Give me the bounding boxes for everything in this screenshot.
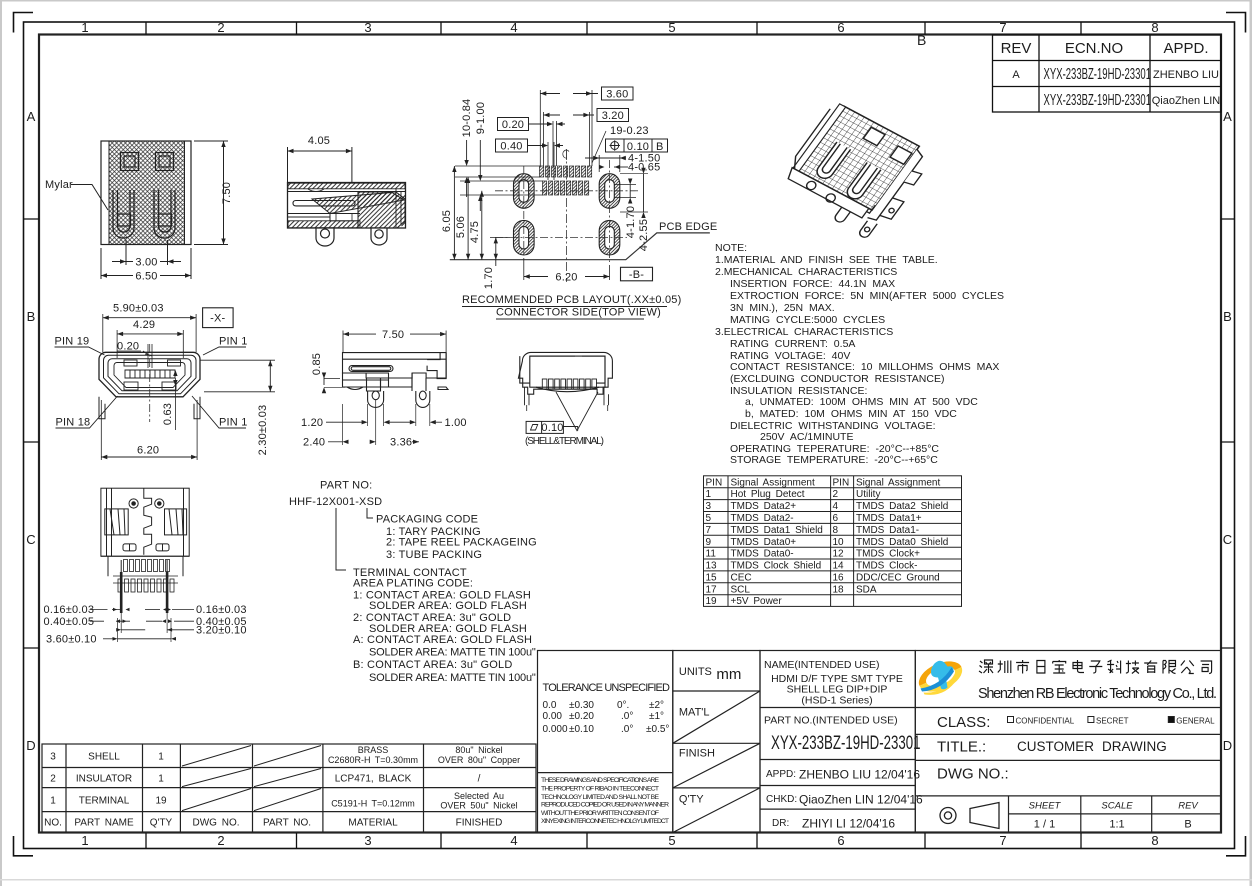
svg-text:7: 7 <box>999 833 1006 848</box>
middle block <box>367 378 381 391</box>
dim box 0.40 <box>496 139 564 180</box>
dimension 3.00 (view1 below) <box>112 240 181 265</box>
bottom mounting feet <box>99 397 200 419</box>
svg-text:TMDS Data2-: TMDS Data2- <box>731 513 794 524</box>
svg-text:TMDS Clock Shield: TMDS Clock Shield <box>731 561 822 572</box>
iso front face <box>782 104 913 226</box>
svg-text:2: 2 <box>833 489 839 500</box>
svg-text:Signal Assignment: Signal Assignment <box>856 477 940 488</box>
svg-text:BRASS: BRASS <box>358 745 389 755</box>
dim 0.63 <box>162 370 178 430</box>
svg-text:PIN 1: PIN 1 <box>219 417 248 429</box>
svg-text:2: 2 <box>217 833 224 848</box>
centerline vertical <box>565 150 567 282</box>
svg-text:0.20: 0.20 <box>502 119 524 131</box>
svg-text:INSERTION FORCE: 44.1N MA: INSERTION FORCE: 44.1N MAX <box>730 278 895 290</box>
svg-text:-B-: -B- <box>629 269 644 281</box>
dim 9-1.00 rotated <box>475 102 487 211</box>
dim 4-1.70 rotated right <box>614 179 637 239</box>
svg-text:12: 12 <box>833 549 845 560</box>
DIP legs with holes <box>316 228 387 246</box>
pad oval top-left <box>514 174 620 255</box>
class row <box>937 714 1215 731</box>
SMT pin row lower <box>118 579 174 592</box>
upper square features <box>121 153 174 171</box>
svg-text:LCP471, BLACK: LCP471, BLACK <box>335 774 412 785</box>
iso U latch left <box>812 118 915 209</box>
电 <box>1073 660 1084 673</box>
svg-text:4-2.55: 4-2.55 <box>638 219 650 251</box>
司 <box>1201 661 1212 674</box>
svg-text:13: 13 <box>706 561 718 572</box>
svg-text:2.30±0.03: 2.30±0.03 <box>257 405 269 456</box>
sheet/scale/rev <box>1029 801 1200 831</box>
pad oval bottom-left <box>514 220 535 255</box>
svg-text:3.ELECTRICAL CHARACTERISTICS: 3.ELECTRICAL CHARACTERISTICS <box>715 326 893 338</box>
iso right side flange and legs <box>832 137 935 243</box>
right vertical edge details <box>396 189 406 228</box>
技 <box>1126 661 1139 674</box>
svg-text:CONTACT RESISTANCE: 10 MILL: CONTACT RESISTANCE: 10 MILLOHMS OHMS MAX <box>730 361 999 373</box>
view3 captions <box>462 294 681 319</box>
label PIN 1 bottom <box>192 396 248 429</box>
svg-text:1 / 1: 1 / 1 <box>1034 819 1055 831</box>
svg-text:TERMINAL: TERMINAL <box>79 796 130 807</box>
svg-text:APPD.: APPD. <box>1163 40 1208 57</box>
svg-text:250V AC/1MINUTE: 250V AC/1MINUTE <box>760 431 853 443</box>
svg-text:FINISH: FINISH <box>679 748 715 760</box>
svg-text:1:1: 1:1 <box>1109 819 1124 831</box>
hatched bottom strip <box>288 221 360 228</box>
svg-text:B: CONTACT AREA: 3u" GOLD: B: CONTACT AREA: 3u" GOLD <box>353 659 512 671</box>
svg-text:7.50: 7.50 <box>382 329 404 341</box>
svg-text:19: 19 <box>706 596 718 607</box>
svg-text:TMDS Data1 Shield: TMDS Data1 Shield <box>731 525 823 536</box>
inner horizontal lines <box>288 192 405 218</box>
svg-text:B: B <box>656 141 664 153</box>
svg-text:/: / <box>478 774 481 785</box>
small windows <box>123 544 136 551</box>
svg-text:15: 15 <box>706 572 718 583</box>
svg-text:MATERIAL: MATERIAL <box>348 818 398 829</box>
svg-text:NO.: NO. <box>44 818 62 829</box>
svg-text:18: 18 <box>833 584 845 595</box>
svg-text:0.16±0.03: 0.16±0.03 <box>44 604 95 616</box>
lower body section <box>101 556 189 576</box>
target circles <box>129 499 138 508</box>
svg-text:6: 6 <box>833 513 839 524</box>
svg-text:±1°: ±1° <box>649 711 664 722</box>
svg-text:11: 11 <box>706 549 717 560</box>
svg-text:RATING CURRENT: 0.5A: RATING CURRENT: 0.5A <box>730 338 855 350</box>
dim 5.90±0.03 <box>103 303 196 353</box>
svg-text:TMDS Clock-: TMDS Clock- <box>856 561 917 572</box>
svg-text:3.60±0.10: 3.60±0.10 <box>46 633 97 645</box>
dimension 4.05 (view2 top) <box>288 147 352 182</box>
svg-text:Selected Au: Selected Au <box>454 791 504 801</box>
svg-text:6.50: 6.50 <box>135 271 157 283</box>
revision table top right <box>993 35 1222 112</box>
PCB edge line <box>450 233 710 260</box>
svg-text:0.00: 0.00 <box>543 711 563 722</box>
dimension 7.50 (view1 right) <box>194 141 228 245</box>
svg-text:CEC: CEC <box>731 572 752 583</box>
orange/yellow elliptical ring <box>914 655 967 697</box>
DIP legs <box>368 391 384 407</box>
flatness feature box 0.10 <box>526 421 564 433</box>
宝 <box>1053 660 1066 673</box>
svg-text:±0.30: ±0.30 <box>569 700 594 711</box>
svg-text:SDA: SDA <box>856 584 877 595</box>
svg-text:3: TUBE PACKING: 3: TUBE PACKING <box>386 549 482 561</box>
dim 0.85 view6 <box>311 353 345 393</box>
svg-text:19-0.23: 19-0.23 <box>610 125 649 137</box>
svg-text:Mylar: Mylar <box>45 179 73 191</box>
svg-text:17: 17 <box>706 584 718 595</box>
svg-text:TMDS Data2+: TMDS Data2+ <box>731 501 797 512</box>
svg-text:4.29: 4.29 <box>133 319 155 331</box>
svg-text:B: B <box>917 32 926 48</box>
mylar hatched body <box>101 141 191 245</box>
lower windows <box>124 382 138 390</box>
svg-text:PCB EDGE: PCB EDGE <box>659 221 717 233</box>
svg-text:3: 3 <box>364 20 371 35</box>
svg-text:CONNECTOR SIDE(TOP VIEW): CONNECTOR SIDE(TOP VIEW) <box>496 307 661 319</box>
svg-text:PIN 1: PIN 1 <box>219 336 248 348</box>
dimple <box>308 189 324 192</box>
svg-text:19: 19 <box>155 796 167 807</box>
svg-text:TMDS Data0+: TMDS Data0+ <box>731 537 797 548</box>
svg-text:1: 1 <box>158 774 164 785</box>
svg-text:6: 6 <box>837 20 844 35</box>
svg-text:ECN.NO: ECN.NO <box>1065 40 1123 57</box>
iso top square features <box>863 127 885 145</box>
label PIN 18 <box>56 396 118 429</box>
svg-text:THE PROPERTY OF RIBAO IN TEECO: THE PROPERTY OF RIBAO IN TEECONNECT <box>541 785 659 792</box>
svg-text:FINISHED: FINISHED <box>456 818 503 829</box>
svg-text:STORAGE TEMPERATURE: -20°C--: STORAGE TEMPERATURE: -20°C--+65°C <box>730 454 938 466</box>
svg-text:3: 3 <box>50 752 56 763</box>
right hook <box>427 353 446 379</box>
svg-text:REPRODUCED COPIED OR USED IN A: REPRODUCED COPIED OR USED IN ANY MANNER <box>541 802 669 809</box>
left SMT pad <box>343 373 389 387</box>
svg-text:APPD:: APPD: <box>766 769 796 780</box>
svg-text:3.60: 3.60 <box>606 89 628 101</box>
dim 10-0.84 rotated <box>461 99 473 197</box>
hatched right section block <box>358 192 405 228</box>
svg-text:80u" Nickel: 80u" Nickel <box>455 745 502 755</box>
dim 1.20 / 1.00 <box>301 404 467 429</box>
blue hammer glyph <box>931 661 954 690</box>
svg-text:UNITS: UNITS <box>679 666 712 678</box>
dim 1.70 below <box>483 237 510 289</box>
svg-text:4: 4 <box>510 833 517 848</box>
svg-text:PART NO.: PART NO. <box>263 818 311 829</box>
svg-text:5.90±0.03: 5.90±0.03 <box>113 303 164 315</box>
pad centerlines <box>495 160 640 262</box>
svg-text:C: C <box>26 532 35 547</box>
svg-text:DWG NO.:: DWG NO.: <box>937 766 1009 783</box>
svg-text:3: 3 <box>364 833 371 848</box>
svg-text:OVER 50u" Nickel: OVER 50u" Nickel <box>440 801 517 811</box>
svg-text:±0.5°: ±0.5° <box>646 724 669 735</box>
svg-text:CUSTOMER: CUSTOMER <box>1017 739 1094 754</box>
svg-text:4.75: 4.75 <box>469 221 481 243</box>
SMT pin pads row 1 (19-0.23) <box>540 166 592 177</box>
iso body top face with mesh grid <box>793 99 919 216</box>
科 <box>1107 660 1121 674</box>
svg-text:6.05: 6.05 <box>441 210 453 232</box>
svg-text:16: 16 <box>833 572 845 583</box>
svg-text:6.20: 6.20 <box>137 445 159 457</box>
svg-text:±2°: ±2° <box>649 700 664 711</box>
svg-text:A: A <box>1223 109 1232 124</box>
svg-text:3.00: 3.00 <box>135 257 157 269</box>
svg-text:OVER 80u" Copper: OVER 80u" Copper <box>438 755 520 765</box>
disclaimer small text <box>541 777 669 825</box>
svg-text:0.10: 0.10 <box>541 422 563 434</box>
svg-text:±0.10: ±0.10 <box>569 724 594 735</box>
contact row <box>125 370 175 378</box>
svg-text:MATING CYCLE:5000 CYCLES: MATING CYCLE:5000 CYCLES <box>730 314 885 326</box>
svg-text:10: 10 <box>833 537 845 548</box>
svg-text:b, MATED: 10M OHMS MIN: b, MATED: 10M OHMS MIN AT 150 VDC <box>745 408 957 420</box>
svg-text:±0.20: ±0.20 <box>569 711 594 722</box>
pad oval bottom-right <box>599 220 620 255</box>
small terminal squares <box>542 379 596 389</box>
SMT pin row upper <box>124 560 170 572</box>
svg-text:8: 8 <box>833 525 839 536</box>
left extension lines for pin rows <box>455 166 543 195</box>
terminal bent band <box>312 193 404 214</box>
svg-text:1: 1 <box>706 489 712 500</box>
svg-text:-X-: -X- <box>210 313 225 325</box>
svg-text:SCL: SCL <box>731 584 751 595</box>
svg-text:Utility: Utility <box>856 489 880 500</box>
svg-text:REV: REV <box>1178 801 1199 812</box>
svg-text:(SHELL&TERMINAL): (SHELL&TERMINAL) <box>525 436 604 447</box>
svg-text:6.20: 6.20 <box>555 272 577 284</box>
svg-text:THESE DRAWINGS AND SPECIFICATI: THESE DRAWINGS AND SPECIFICATIONS ARE <box>541 777 659 784</box>
diagonal slashes in empty cells <box>182 746 321 811</box>
svg-text:2: 2 <box>50 774 56 785</box>
svg-text:8: 8 <box>1151 833 1158 848</box>
svg-text:Shenzhen RB Electronic Technol: Shenzhen RB Electronic Technology Co., L… <box>978 686 1217 702</box>
svg-text:10-0.84: 10-0.84 <box>461 99 473 138</box>
svg-text:TMDS Data2 Shield: TMDS Data2 Shield <box>856 501 948 512</box>
svg-text:9-1.00: 9-1.00 <box>475 102 487 134</box>
svg-text:D: D <box>1223 738 1232 753</box>
svg-text:0°.: 0°. <box>617 700 629 711</box>
dim 6.20 view5 <box>101 400 197 460</box>
svg-text:XYX-233BZ-19HD-23301: XYX-233BZ-19HD-23301 <box>1044 65 1152 83</box>
svg-text:1: 1 <box>158 752 164 763</box>
子 <box>1089 661 1102 673</box>
svg-text:1.70: 1.70 <box>483 267 495 289</box>
svg-text:NAME(INTENDED USE): NAME(INTENDED USE) <box>764 659 880 671</box>
upper small windows <box>124 360 137 366</box>
svg-text:D: D <box>26 738 35 753</box>
svg-text:A: A <box>27 109 36 124</box>
dark blue swoosh <box>921 668 955 692</box>
svg-text:DR:: DR: <box>772 818 789 829</box>
svg-text:C: C <box>1223 532 1232 547</box>
svg-text:8: 8 <box>1151 20 1158 35</box>
svg-text:3N MIN.), 25N MAX.: 3N MIN.), 25N MAX. <box>730 302 835 314</box>
dim 2.40 / 3.36 <box>303 400 419 449</box>
svg-text:A: A <box>1012 69 1020 81</box>
有 <box>1144 661 1157 674</box>
hatched top strip <box>288 183 405 189</box>
dim box 0.20 <box>498 118 566 167</box>
svg-text:3: 3 <box>706 501 712 512</box>
svg-text:INSULATOR: INSULATOR <box>76 774 132 785</box>
centerline symbol G <box>563 149 569 160</box>
svg-text:1.00: 1.00 <box>445 417 467 429</box>
dim 2.30±0.03 <box>200 360 275 455</box>
svg-text:QiaoZhen LIN 12/04'16: QiaoZhen LIN 12/04'16 <box>799 793 923 807</box>
svg-text:.0°: .0° <box>621 724 633 735</box>
svg-text:0.40: 0.40 <box>500 141 522 153</box>
svg-text:PIN: PIN <box>706 477 723 488</box>
branch lines <box>336 508 373 570</box>
市 <box>1016 660 1029 674</box>
svg-text:Q'TY: Q'TY <box>150 818 173 829</box>
svg-text:B: B <box>27 309 36 324</box>
svg-text:PACKAGING CODE: PACKAGING CODE <box>376 513 478 525</box>
svg-text:PIN: PIN <box>833 477 850 488</box>
svg-text:0.000: 0.000 <box>543 724 568 735</box>
label 4-1.50 <box>585 153 660 173</box>
svg-text:DWG NO.: DWG NO. <box>193 818 240 829</box>
svg-text:B: B <box>1223 309 1232 324</box>
svg-text:B: B <box>1184 819 1191 831</box>
SMT pin pads row 2 <box>543 181 589 195</box>
slot oval <box>349 366 393 372</box>
dim box 3.60 <box>540 87 633 166</box>
label 4-0.65 <box>600 162 661 174</box>
view8 dimension texts <box>44 604 247 645</box>
svg-text:SOLDER AREA: MATTE TIN 100: SOLDER AREA: MATTE TIN 100u" <box>369 647 536 659</box>
body outline <box>101 488 189 556</box>
svg-text:TMDS Data1-: TMDS Data1- <box>856 525 919 536</box>
svg-text:1: 1 <box>50 796 56 807</box>
DIP pins long <box>121 572 167 613</box>
svg-text:TMDS Clock+: TMDS Clock+ <box>856 549 920 560</box>
svg-text:DDC/CEC Ground: DDC/CEC Ground <box>856 572 940 583</box>
svg-text:7: 7 <box>706 525 712 536</box>
限 <box>1163 661 1176 674</box>
dim 6.05 <box>441 166 457 260</box>
svg-text:QiaoZhen LIN: QiaoZhen LIN <box>1152 95 1221 107</box>
svg-text:4: 4 <box>833 501 839 512</box>
svg-text:SCALE: SCALE <box>1101 801 1133 812</box>
company logo <box>914 655 967 697</box>
svg-text:C2680R-H T=0.30mm: C2680R-H T=0.30mm <box>328 755 418 765</box>
svg-text:ZHENBO LIU: ZHENBO LIU <box>1153 69 1219 81</box>
svg-text:SOLDER AREA: GOLD FLASH: SOLDER AREA: GOLD FLASH <box>369 600 527 612</box>
dim 6.20 pcb <box>524 258 610 284</box>
svg-text:AREA PLATING CODE:: AREA PLATING CODE: <box>353 577 473 589</box>
svg-text:5: 5 <box>668 20 675 35</box>
svg-text:EXTROCTION FORCE: 5N MIN(AF: EXTROCTION FORCE: 5N MIN(AFTER 5000 CYCL… <box>730 290 1004 302</box>
svg-text:4.05: 4.05 <box>308 135 330 147</box>
svg-text:6: 6 <box>837 833 844 848</box>
GDT frame 0.10 B <box>606 139 668 153</box>
pad oval top-right <box>599 174 620 209</box>
svg-text:NOTE:: NOTE: <box>715 242 747 254</box>
svg-text:3.20: 3.20 <box>602 110 624 122</box>
svg-text:PIN 18: PIN 18 <box>56 417 91 429</box>
svg-text:0.40±0.05: 0.40±0.05 <box>44 616 95 628</box>
svg-text:.0°: .0° <box>621 711 633 722</box>
side legs <box>525 387 609 405</box>
svg-text:1: 1 <box>81 833 88 848</box>
svg-text:DRAWING: DRAWING <box>1102 739 1167 754</box>
svg-text:5.06: 5.06 <box>455 216 467 238</box>
svg-text:2.MECHANICAL CHARACTERISTICS: 2.MECHANICAL CHARACTERISTICS <box>715 266 897 278</box>
svg-text:TMDS Data0-: TMDS Data0- <box>731 549 794 560</box>
svg-text:WITHOUT THE PRIOR WRITTEN CON: WITHOUT THE PRIOR WRITTEN CONSENT OF <box>541 810 659 817</box>
svg-text:Q'TY: Q'TY <box>679 794 704 806</box>
svg-text:SECRET: SECRET <box>1096 717 1129 726</box>
svg-text:5: 5 <box>706 513 712 524</box>
company name chinese (drawn strokes) <box>979 660 1212 674</box>
svg-text:mm: mm <box>716 666 741 683</box>
圳 <box>998 661 1011 674</box>
dim 0.20 inside <box>117 341 152 369</box>
yellow under-swoosh <box>924 673 958 695</box>
svg-text:GENERAL: GENERAL <box>1176 717 1215 726</box>
svg-text:2: 2 <box>217 20 224 35</box>
svg-text:PIN 19: PIN 19 <box>55 336 90 348</box>
contact tongue <box>293 201 355 206</box>
dim box 3.20 <box>544 109 629 167</box>
svg-text:9: 9 <box>706 537 712 548</box>
svg-text:1: 1 <box>81 20 88 35</box>
U shaped latch features <box>113 190 175 238</box>
svg-text:0.16±0.03: 0.16±0.03 <box>196 604 247 616</box>
svg-text:Signal Assignment: Signal Assignment <box>731 477 815 488</box>
日 <box>1037 661 1045 674</box>
svg-text:ZHENBO LIU 12/04'16: ZHENBO LIU 12/04'16 <box>799 768 920 782</box>
label Mylar with leader <box>45 179 108 210</box>
inner tongue cavity <box>114 363 185 388</box>
svg-text:MAT'L: MAT'L <box>679 707 710 719</box>
svg-text:4-1.70: 4-1.70 <box>625 206 637 238</box>
svg-text:A: CONTACT AREA: GOLD FLAS: A: CONTACT AREA: GOLD FLASH <box>353 634 532 646</box>
svg-text:XYX-233BZ-19HD-23301: XYX-233BZ-19HD-23301 <box>1044 91 1152 109</box>
datum box -X- <box>203 308 234 328</box>
svg-text:14: 14 <box>833 561 845 572</box>
svg-text:3.20±0.10: 3.20±0.10 <box>196 624 247 636</box>
svg-text:SOLDER AREA: MATTE TIN 100: SOLDER AREA: MATTE TIN 100u" <box>369 672 536 684</box>
公 <box>1181 661 1194 674</box>
svg-text:7: 7 <box>999 20 1006 35</box>
svg-text:0.0: 0.0 <box>543 700 557 711</box>
svg-text:ZHIYI LI 12/04'16: ZHIYI LI 12/04'16 <box>802 817 895 831</box>
datum box -B- <box>621 267 653 281</box>
shell outline <box>99 352 200 397</box>
dim 4.75 <box>469 191 484 260</box>
svg-text:TMDS Data1+: TMDS Data1+ <box>856 513 922 524</box>
svg-text:2.40: 2.40 <box>303 437 325 449</box>
svg-text:RECOMMENDED PCB LAYOUT(.XX±0: RECOMMENDED PCB LAYOUT(.XX±0.05) <box>462 294 681 306</box>
svg-text:Hot Plug Detect: Hot Plug Detect <box>731 489 805 500</box>
svg-text:PART NAME: PART NAME <box>74 818 134 829</box>
svg-text:7.50: 7.50 <box>221 182 233 204</box>
svg-text:4: 4 <box>510 20 517 35</box>
